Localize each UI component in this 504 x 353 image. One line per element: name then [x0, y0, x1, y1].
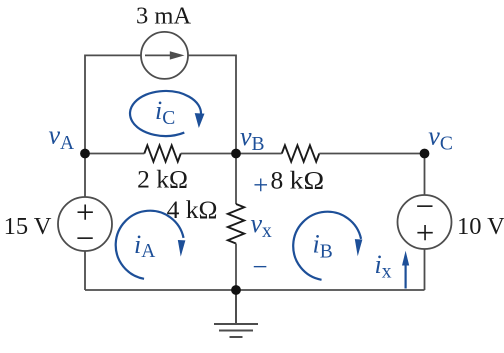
wire: bottom rail: [85, 289, 425, 291]
node A junction dot: [80, 149, 90, 159]
mesh current arrow iC: [130, 91, 204, 136]
svg-text:+: +: [416, 216, 435, 252]
wire: 2k resistor to node B: [181, 153, 236, 155]
mesh current arrow iB: [293, 212, 362, 280]
node B junction dot: [231, 149, 241, 159]
wire: 10V source down to bottom-right corner: [424, 249, 426, 290]
voltage source 15 V: [58, 195, 112, 257]
ground node junction dot: [231, 285, 241, 295]
svg-text:8 kΩ: 8 kΩ: [271, 166, 325, 195]
current arrow ix: [402, 251, 409, 289]
ground: [214, 290, 258, 337]
wire: node B to 8k resistor: [236, 153, 282, 155]
mesh current arrow iA: [116, 211, 186, 279]
resistor 8 kOhm: [282, 145, 320, 161]
current source 3 mA: [141, 32, 188, 79]
svg-text:2 kΩ: 2 kΩ: [137, 165, 188, 194]
voltage source 10 V: [398, 189, 452, 252]
resistor 4 kOhm: [228, 204, 244, 244]
resistor 2 kOhm: [144, 145, 181, 161]
svg-text:+: +: [253, 170, 268, 200]
node C junction dot: [420, 149, 430, 159]
wire: node A up and over to current source: [85, 55, 141, 153]
wire: node A to 2k resistor: [85, 153, 144, 155]
svg-text:3 mA: 3 mA: [136, 3, 191, 30]
wire: node C down to 10V source: [424, 154, 426, 196]
svg-text:15 V: 15 V: [4, 213, 52, 240]
svg-text:10 V: 10 V: [457, 213, 504, 240]
svg-text:−: −: [252, 251, 267, 281]
wire: 15V source down to bottom-left corner: [84, 251, 86, 290]
wire: current source to top-right corner down to node B: [188, 55, 236, 153]
wire: 4k resistor down to ground node: [235, 244, 237, 291]
wire: node B down to 4k resistor: [235, 154, 237, 205]
wire: node A down to 15V source: [84, 154, 86, 198]
wire: 8k resistor to node C: [319, 153, 424, 155]
